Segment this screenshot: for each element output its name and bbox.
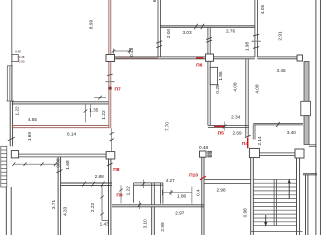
svg-text:1.98: 1.98 xyxy=(244,42,249,52)
wall W12 x=110 below N3 xyxy=(109,159,111,235)
svg-text:2.91: 2.91 xyxy=(278,31,283,41)
red opening П10 xyxy=(200,176,206,180)
svg-text:3.10: 3.10 xyxy=(143,219,148,229)
svg-text:3.03: 3.03 xyxy=(182,30,192,35)
left outer wall middle xyxy=(10,101,12,146)
node N9 xyxy=(297,55,303,61)
up arrow xyxy=(288,182,290,199)
svg-text:2.97: 2.97 xyxy=(175,210,185,215)
right interior gray wall lower xyxy=(304,116,309,145)
svg-text:6.14: 6.14 xyxy=(67,132,77,137)
stair left wall xyxy=(251,158,254,235)
svg-text:6.10: 6.10 xyxy=(152,0,157,2)
wall W1 top of left room y=57-59 xyxy=(115,57,298,59)
wall W4 x=209 xyxy=(208,27,210,125)
dim 1.86 with line xyxy=(162,187,192,204)
right outer wall xyxy=(316,0,321,235)
svg-text:4.08: 4.08 xyxy=(232,82,237,92)
svg-text:2.99: 2.99 xyxy=(160,222,165,232)
wall W3 y=26 xyxy=(160,26,254,28)
node N5 with panel xyxy=(200,151,207,157)
node N2 xyxy=(206,54,214,61)
wall horizontal left room top y=102 xyxy=(12,102,109,104)
svg-text:0.90: 0.90 xyxy=(19,59,25,63)
svg-text:П4: П4 xyxy=(242,141,249,147)
node N7 xyxy=(295,149,304,158)
wall mid bottom x=154 xyxy=(152,207,155,235)
svg-text:0.48: 0.48 xyxy=(129,47,134,57)
wall right of stairs lower xyxy=(306,175,308,235)
red wall x=110 upper xyxy=(109,0,111,55)
svg-text:П9: П9 xyxy=(116,192,123,198)
right interior gray wall upper xyxy=(304,61,309,101)
down arrow xyxy=(265,215,267,223)
wall W19 y=181 xyxy=(204,180,251,184)
door niche 1.86 xyxy=(210,67,217,84)
svg-text:П10: П10 xyxy=(189,172,198,178)
svg-text:1.86: 1.86 xyxy=(218,71,223,81)
svg-text:3.40: 3.40 xyxy=(287,130,297,135)
stair right wall xyxy=(297,158,300,235)
svg-text:3.45: 3.45 xyxy=(276,68,286,73)
left window xyxy=(7,66,15,101)
svg-text:1.22: 1.22 xyxy=(126,186,131,196)
red opening П6 xyxy=(196,57,204,59)
svg-text:2.76: 2.76 xyxy=(226,28,236,33)
svg-text:П5: П5 xyxy=(218,130,225,136)
svg-text:1.86: 1.86 xyxy=(177,193,187,198)
left hatch (balcony steps) xyxy=(1,146,7,187)
svg-text:1.68: 1.68 xyxy=(65,160,70,170)
red wall x=110 lower xyxy=(109,62,111,128)
node N3 xyxy=(106,152,115,159)
closet wall W13 xyxy=(101,186,103,221)
wall W16 y=205 xyxy=(112,205,204,207)
svg-text:1.43: 1.43 xyxy=(100,222,110,227)
wall W17 x=203 П10 xyxy=(202,157,204,235)
svg-text:2.14: 2.14 xyxy=(257,136,262,146)
shaft walls W14 xyxy=(134,183,163,205)
svg-text:0.4: 0.4 xyxy=(195,189,200,196)
svg-text:8.99: 8.99 xyxy=(88,20,93,30)
node N1 xyxy=(106,55,115,62)
dim small lines below wall xyxy=(84,105,86,123)
wall W7 closet top y=124 xyxy=(253,123,303,139)
red demolition line y=125 xyxy=(12,124,111,126)
svg-text:1.22: 1.22 xyxy=(14,106,19,116)
svg-text:П8: П8 xyxy=(113,167,120,173)
stub to outer wall xyxy=(309,145,317,147)
svg-text:7.70: 7.70 xyxy=(165,122,170,132)
dim line x=111.7 below red wall xyxy=(111,128,113,151)
wall W5 y=126 xyxy=(208,126,249,128)
svg-text:4.27: 4.27 xyxy=(166,178,176,183)
wall W8 x=256 xyxy=(255,0,258,57)
door box N8 xyxy=(301,101,311,115)
dim line x=121 xyxy=(120,185,122,203)
wall W18 x=59 xyxy=(58,157,61,235)
ticks on red wall / opening П7 xyxy=(107,74,113,75)
red segment on W1 xyxy=(116,57,159,59)
tick on left wall xyxy=(8,137,15,141)
svg-text:4.08: 4.08 xyxy=(254,84,259,94)
svg-text:П7: П7 xyxy=(114,87,121,93)
svg-text:0.25: 0.25 xyxy=(215,84,220,94)
svg-text:4.55: 4.55 xyxy=(28,117,38,122)
svg-text:П6: П6 xyxy=(196,63,203,69)
stair treads xyxy=(253,179,296,225)
wall W2 x=159 xyxy=(158,0,160,57)
left outer wall lower xyxy=(6,187,11,235)
red opening П4 xyxy=(247,138,249,149)
dim line 0.48 near N1 xyxy=(114,48,130,55)
node N6 xyxy=(249,148,259,157)
wall W15 y=184 xyxy=(61,183,112,185)
red opening П5 xyxy=(214,125,224,127)
corridor top wall y=174 xyxy=(303,174,317,175)
svg-text:2.98: 2.98 xyxy=(216,187,226,192)
svg-text:1.22: 1.22 xyxy=(101,110,106,120)
svg-text:2.34: 2.34 xyxy=(231,114,241,119)
dim ticks above left wall y=97.5 xyxy=(94,97,106,99)
svg-text:0.98: 0.98 xyxy=(243,208,248,218)
dim line y=164 with ticks xyxy=(14,163,59,165)
svg-text:4.33: 4.33 xyxy=(63,206,68,216)
wall-section box left xyxy=(12,55,18,62)
left vertical extension line xyxy=(11,0,13,101)
stair bottom landing line xyxy=(251,231,303,233)
svg-text:0.48: 0.48 xyxy=(199,145,209,150)
svg-text:4.05: 4.05 xyxy=(260,5,265,15)
wall W11b y=154 right xyxy=(259,153,295,156)
svg-text:3.71: 3.71 xyxy=(51,200,56,210)
svg-text:0.40: 0.40 xyxy=(15,50,21,54)
svg-text:1.35: 1.35 xyxy=(89,107,99,112)
stair center stringer xyxy=(274,179,276,225)
svg-text:1.69: 1.69 xyxy=(27,132,32,142)
wall W6 x=248 xyxy=(246,59,248,137)
svg-text:2.88: 2.88 xyxy=(95,174,105,179)
node N4 xyxy=(11,151,18,158)
svg-text:2.00: 2.00 xyxy=(166,29,171,39)
svg-text:2.22: 2.22 xyxy=(90,203,95,213)
svg-text:2.69: 2.69 xyxy=(232,131,242,136)
wall W11 y=155 left segment xyxy=(19,154,107,157)
